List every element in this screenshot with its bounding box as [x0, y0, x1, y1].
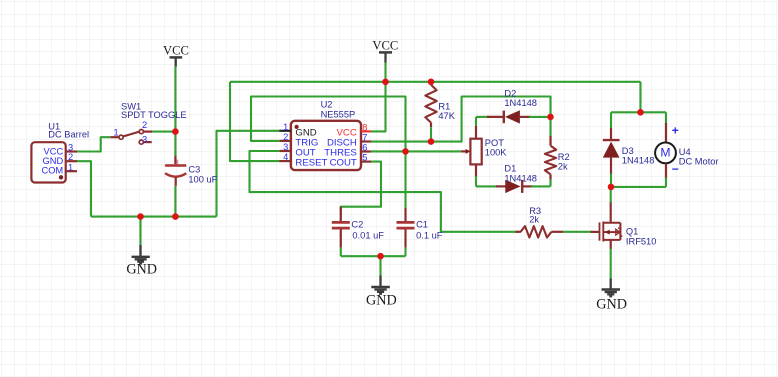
svg-text:U4: U4 — [679, 147, 691, 157]
svg-text:3: 3 — [142, 134, 147, 144]
node VCC1 power symbol — [163, 43, 189, 66]
IC U2 NE555P — [279, 100, 371, 171]
wire RESET pin4 to VCC rail — [230, 82, 279, 161]
svg-text:8: 8 — [362, 122, 367, 132]
wire GND rail under C1/C2 — [341, 255, 406, 257]
capacitor C2 0.01 uF — [332, 207, 384, 248]
wire TRIG pin2 loop to THRES node — [251, 97, 406, 152]
wire VCC rail down to motor branch — [639, 82, 641, 113]
wire U1 GND to bottom rail — [77, 161, 91, 216]
wire SW1 pin2 to VCC net — [152, 131, 175, 133]
svg-text:2: 2 — [283, 132, 288, 142]
wire Q1 source to GND3 — [610, 249, 612, 280]
SW1 lever — [123, 132, 139, 137]
svg-text:POT: POT — [485, 138, 504, 148]
svg-text:100K: 100K — [485, 148, 508, 158]
svg-text:GND: GND — [366, 293, 397, 309]
potentiometer POT 100K — [461, 117, 508, 186]
pin 8 VCC stub — [361, 130, 371, 132]
svg-text:DC Barrel: DC Barrel — [48, 129, 89, 139]
svg-text:2: 2 — [142, 120, 147, 130]
svg-text:1N4148: 1N4148 — [622, 155, 655, 165]
Q1 source stub — [603, 239, 620, 241]
svg-text:U2: U2 — [321, 100, 333, 110]
pin 5 COUT stub — [361, 161, 371, 163]
wire THRES pin6 to pot wiper — [371, 150, 461, 152]
resistor R1 47K — [425, 82, 455, 142]
pin 3 OUT stub — [279, 150, 291, 152]
svg-text:7: 7 — [362, 133, 367, 143]
svg-text:VCC: VCC — [372, 38, 398, 52]
wire motor bottom rail — [611, 186, 666, 188]
diode D2 1N4148 — [476, 88, 551, 123]
ground symbol GND1 — [126, 245, 157, 278]
svg-text:C3: C3 — [188, 165, 200, 175]
Q1 body stub with arrow — [603, 231, 620, 233]
svg-text:−: − — [672, 162, 679, 176]
connector U1 DC Barrel — [31, 121, 89, 182]
svg-text:1: 1 — [68, 162, 73, 172]
wire VCC1 to switch/C3 net — [174, 67, 176, 156]
svg-text:2: 2 — [68, 152, 73, 162]
wire OUT pin3 to R3 — [250, 151, 518, 232]
wire DISCH pin7 to diode network — [371, 97, 551, 142]
svg-text:R1: R1 — [438, 101, 450, 111]
svg-text:3: 3 — [283, 142, 288, 152]
svg-text:6: 6 — [362, 143, 367, 153]
wire GND rail bottom-left — [91, 216, 217, 218]
SW1 throw pin3 — [139, 140, 143, 144]
svg-text:1: 1 — [283, 122, 288, 132]
motor U4 DC Motor — [655, 112, 718, 187]
capacitor C3 100 uF (polarized) — [165, 156, 218, 186]
wire THRES node down to C1 — [404, 151, 406, 208]
svg-text:1N4148: 1N4148 — [504, 173, 537, 183]
svg-text:VCC: VCC — [44, 146, 64, 156]
svg-text:COM: COM — [41, 166, 63, 176]
svg-text:5: 5 — [362, 153, 367, 163]
wire VCC pin8 to rail — [371, 82, 386, 132]
svg-text:NE555P: NE555P — [321, 110, 356, 120]
resistor R2 2k — [545, 117, 570, 186]
svg-text:Q1: Q1 — [626, 227, 638, 237]
SW1 pole stub pin1 — [110, 136, 118, 138]
svg-text:DC Motor: DC Motor — [679, 157, 719, 167]
svg-text:SPDT TOGGLE: SPDT TOGGLE — [121, 110, 187, 120]
svg-text:2k: 2k — [558, 161, 568, 171]
wire COUT pin5 to C2 — [341, 162, 381, 210]
svg-text:C2: C2 — [351, 220, 363, 230]
transistor Q1 IRF510 — [591, 202, 657, 250]
switch SW1 SPDT TOGGLE — [110, 101, 186, 144]
svg-text:GND: GND — [596, 297, 627, 313]
junction dots layer — [172, 128, 179, 135]
svg-text:0.1 uF: 0.1 uF — [416, 230, 443, 240]
pin 1 GND stub — [279, 130, 291, 132]
pin 6 THRES stub — [361, 150, 371, 152]
node VCC2 power symbol — [372, 38, 398, 62]
svg-text:0.01 uF: 0.01 uF — [352, 230, 384, 240]
Q1 gate bar — [599, 222, 601, 240]
Q1 gate-protection zener — [616, 229, 620, 235]
wire U1 VCC to SW1 pole — [77, 137, 110, 151]
svg-text:2k: 2k — [529, 214, 539, 224]
svg-text:COUT: COUT — [330, 158, 357, 169]
wire to GND2 — [379, 256, 381, 276]
wire R3 to Q1 gate — [563, 231, 593, 233]
svg-text:GND: GND — [126, 262, 157, 278]
POT wiper arrow — [461, 150, 468, 152]
resistor R3 2k — [516, 206, 564, 237]
Q1 right vertical — [619, 223, 621, 240]
Q1 channel bar — [602, 222, 604, 242]
svg-text:IRF510: IRF510 — [626, 236, 657, 246]
Q1 gate lead — [591, 231, 600, 233]
pin 2 TRIG stub — [279, 140, 291, 142]
svg-text:M: M — [660, 146, 670, 160]
svg-text:C1: C1 — [416, 220, 428, 230]
diode D1 1N4148 — [476, 164, 551, 193]
pin 7 DISCH stub — [361, 140, 371, 142]
svg-text:GND: GND — [43, 156, 64, 166]
SW1 throw pin2 — [139, 130, 143, 134]
wire rail to GND1 symbol — [139, 217, 141, 246]
wire rail up to 555 GND pin1 — [217, 131, 280, 217]
svg-text:1N4148: 1N4148 — [504, 98, 537, 108]
capacitor C1 0.1 uF — [397, 208, 443, 248]
wire C3 bottom to rail — [174, 186, 176, 217]
diode D3 1N4148 (flyback) — [603, 112, 655, 187]
wire motor node down to Q1 drain — [610, 187, 612, 203]
svg-text:3: 3 — [68, 142, 73, 152]
svg-text:4: 4 — [283, 152, 288, 162]
ground symbol GND3 — [596, 279, 627, 313]
wire motor top rail — [611, 111, 666, 113]
wire VCC rail (top) — [230, 81, 641, 83]
svg-text:47K: 47K — [438, 111, 455, 121]
Q1 drain stub — [603, 222, 620, 224]
svg-text:+: + — [672, 124, 679, 138]
pin 4 RESET stub — [279, 160, 291, 162]
ground symbol GND2 — [366, 276, 397, 309]
svg-text:D1: D1 — [504, 164, 516, 174]
wire C1 bottom to GND rail — [404, 248, 406, 257]
svg-text:1: 1 — [114, 127, 119, 137]
wire C2 bottom to GND rail — [340, 248, 342, 257]
svg-text:100 uF: 100 uF — [188, 175, 217, 185]
wire VCC2 stem to VCC rail — [384, 63, 386, 82]
svg-text:D2: D2 — [504, 88, 516, 98]
svg-text:VCC: VCC — [163, 43, 189, 57]
svg-text:RESET: RESET — [295, 158, 327, 169]
